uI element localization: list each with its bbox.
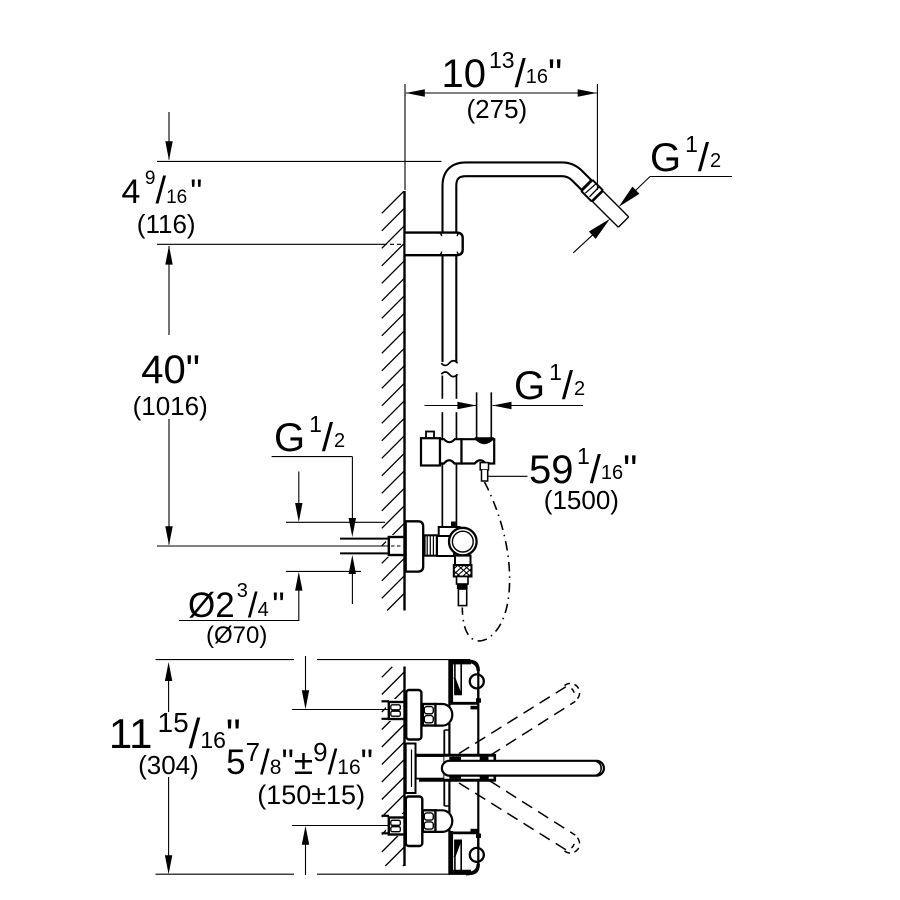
spout mount block bbox=[444, 755, 495, 780]
reference line top of shower arm bbox=[157, 160, 442, 162]
dashed swivel spout (upper position) bbox=[459, 687, 575, 756]
lower inlet: pipe behind wall bbox=[382, 816, 390, 834]
dimension 275: dimension line with arrows bbox=[406, 92, 597, 94]
wall hatching upper view bbox=[382, 192, 405, 611]
riser pipe lower segment bbox=[441, 376, 457, 529]
pipe break symbol bbox=[441, 361, 457, 366]
dimension 116: vertical line and arrows bbox=[168, 112, 170, 160]
wall surface line lower view bbox=[403, 667, 405, 867]
valve outlet stub bbox=[455, 556, 471, 565]
hand shower hose nipple bbox=[480, 463, 488, 470]
dimension 1016: vertical line segments and arrow bbox=[168, 246, 170, 335]
label G 1/2 top right bbox=[650, 138, 721, 178]
wall surface line upper view bbox=[403, 191, 405, 611]
hand shower cone seat (black crescent) bbox=[475, 437, 494, 444]
valve knurled nut bbox=[424, 535, 437, 555]
lower handle (top view) bbox=[449, 829, 484, 874]
label diameter 2 3/4 inch bbox=[188, 588, 285, 623]
supply centerline / 40in reference line bbox=[157, 545, 389, 547]
label 4 9/16 inch bbox=[122, 175, 203, 209]
diverter knob (circles) bbox=[449, 528, 477, 556]
59 1/16 leader line bbox=[489, 475, 528, 477]
pivot ring shadows bbox=[449, 757, 461, 761]
G1/2 top-right opposite arrow bbox=[573, 221, 608, 253]
label (150 plus-minus 15) bbox=[257, 782, 365, 809]
wall bracket for riser bbox=[406, 233, 462, 256]
wall hatching lower view bbox=[382, 667, 405, 866]
upper inlet: wall nut bbox=[389, 702, 405, 719]
valve body bbox=[437, 536, 454, 556]
hand shower handle bbox=[477, 392, 492, 437]
lower inlet: check valve connector bbox=[436, 810, 453, 832]
lower inlet: escutcheon bbox=[406, 797, 423, 847]
valve top union nut bbox=[439, 527, 460, 536]
shower hose (dash-dot loop) bbox=[462, 482, 509, 641]
slider holder body on riser bbox=[440, 439, 462, 463]
diameter 70 arrows bbox=[298, 472, 300, 504]
slider holder arm bbox=[462, 439, 495, 463]
hose end tube bbox=[458, 589, 466, 606]
upper inlet: hex nut bbox=[423, 704, 436, 726]
mid body protrusion bbox=[443, 730, 445, 806]
mixer faceplate body bbox=[449, 661, 478, 874]
label (1016) bbox=[133, 393, 208, 419]
label G 1/2 at holder bbox=[514, 366, 585, 406]
label 11 15/16 inch bbox=[109, 713, 241, 755]
bracket centerline (dashed reference) bbox=[157, 243, 383, 245]
upper handle (top view) bbox=[449, 661, 484, 710]
valve wall flange bbox=[406, 521, 424, 571]
label (1500) bbox=[544, 487, 619, 513]
white cutouts for wall nuts bbox=[386, 535, 404, 557]
dashed swivel spout (lower position) bbox=[459, 781, 575, 850]
hose coupling nut (cross-hatched) bbox=[454, 565, 472, 577]
upper inlet: pipe behind wall bbox=[382, 701, 390, 719]
dimension 275: extension lines bbox=[404, 84, 406, 190]
hose fitting dark band bbox=[457, 584, 468, 589]
label G 1/2 supply bbox=[274, 418, 345, 458]
lower inlet: hex nut bbox=[423, 810, 436, 832]
slider holder clamp knob bbox=[426, 432, 434, 439]
wall nut on supply stub bbox=[389, 537, 405, 555]
slider holder clamp body bbox=[421, 438, 440, 465]
bracket pipe fillets bbox=[439, 233, 461, 256]
label (diameter 70) bbox=[206, 624, 267, 648]
dimension 150: arrows bbox=[305, 656, 307, 691]
dimension 304: reference lines bbox=[156, 659, 295, 661]
label (275) bbox=[467, 96, 528, 122]
label 59 1/16 inch bbox=[529, 450, 637, 490]
label (304) bbox=[138, 752, 199, 778]
supply stub pipe through wall bbox=[340, 539, 389, 554]
hose fitting below nut bbox=[457, 577, 469, 585]
spout tube bbox=[442, 761, 604, 776]
spout end cap inner arc bbox=[597, 762, 602, 776]
diameter 70 label underline bbox=[179, 620, 299, 622]
flange diameter reference lines bbox=[286, 521, 385, 523]
hand shower G1/2 dimension line with arrows bbox=[425, 405, 477, 407]
upper inlet: escutcheon bbox=[406, 690, 421, 740]
connecting block cartridge to body bbox=[416, 756, 445, 779]
label (116) bbox=[137, 211, 196, 237]
lower inlet: wall nut bbox=[389, 818, 405, 835]
riser pipe upper segment with shower arm bbox=[449, 169, 586, 362]
label 10 13/16 inch bbox=[442, 54, 563, 94]
label 5 7/8 plus-minus 9/16 inch bbox=[226, 745, 373, 780]
dimension 150: reference lines bbox=[292, 709, 389, 711]
G1/2 supply label underline and arrow bbox=[272, 456, 353, 458]
G1/2 top-right label leader bbox=[650, 176, 732, 178]
gap in riser where hand-shower dimension line crosses bbox=[439, 399, 460, 412]
thermostat cartridge housing at wall bbox=[406, 744, 416, 794]
upper inlet: check valve connector bbox=[436, 704, 453, 726]
shower arm thread block bbox=[581, 180, 603, 202]
dimension 304: vertical line and arrows bbox=[165, 662, 172, 681]
small lever tab above valve bbox=[451, 522, 456, 528]
shower arm threaded tip (thin outline) bbox=[592, 191, 629, 228]
black dot on cartridge bbox=[416, 765, 421, 770]
label 40 inch bbox=[141, 350, 200, 390]
